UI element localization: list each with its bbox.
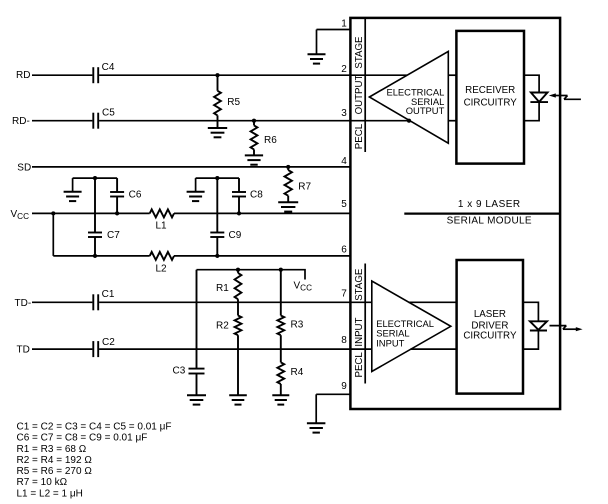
wire receiver to photodiode bottom — [524, 102, 539, 121]
electrical serial input text — [376, 318, 434, 349]
svg-text:C8: C8 — [250, 190, 263, 201]
wire C4 to pin 2 / output stage — [99, 74, 407, 76]
wire decoupling bar right — [196, 177, 239, 179]
svg-text:SERIAL MODULE: SERIAL MODULE — [447, 216, 532, 227]
svg-text:2: 2 — [341, 64, 347, 75]
svg-text:8: 8 — [341, 335, 347, 346]
module divider line — [404, 212, 560, 214]
svg-text:R4: R4 — [291, 367, 304, 378]
receiver circuitry text — [464, 85, 518, 108]
resistor R4 — [277, 349, 284, 395]
wire decoupling bar left — [73, 177, 118, 179]
ground at pin 9 — [307, 423, 326, 432]
laser driver circuitry text — [463, 309, 517, 342]
svg-text:C2: C2 — [102, 337, 115, 348]
svg-text:TD: TD — [17, 345, 30, 356]
resistor R3 — [277, 270, 284, 349]
svg-text:C1 = C2 = C3 = C4 = C5 = 0.01: C1 = C2 = C3 = C4 = C5 = 0.01 μF — [17, 421, 172, 432]
wire receiver to photodiode top — [524, 75, 539, 92]
svg-text:STAGE: STAGE — [354, 268, 365, 301]
junction dot C8 bottom on VCC — [237, 211, 241, 215]
svg-text:6: 6 — [341, 245, 347, 256]
wire RD- to C5 — [32, 120, 92, 122]
junction dot C7 bottom on L2 line — [93, 254, 97, 258]
svg-text:R1 = R3 = 68 Ω: R1 = R3 = 68 Ω — [17, 444, 87, 455]
resistor R6 — [251, 121, 258, 156]
svg-text:R1: R1 — [216, 283, 229, 294]
svg-text:C6: C6 — [129, 190, 142, 201]
ground at pin 1 — [308, 54, 326, 63]
electrical serial output text — [386, 87, 444, 116]
svg-text:C3: C3 — [173, 366, 186, 377]
ground on right decoupling bar — [187, 192, 205, 201]
svg-text:INPUT: INPUT — [376, 337, 404, 348]
svg-text:RECEIVER: RECEIVER — [465, 85, 515, 96]
svg-text:9: 9 — [341, 381, 347, 392]
svg-text:R6: R6 — [264, 135, 277, 146]
svg-text:R7 = 10 kΩ: R7 = 10 kΩ — [17, 477, 68, 488]
laser driver circuitry box — [457, 260, 523, 394]
wire triangle to laser driver (upper) — [409, 301, 457, 303]
resistor R2 — [235, 302, 242, 395]
junction dot R1 top on bias bar — [236, 268, 240, 272]
capacitor C4 — [93, 67, 98, 83]
inductor L1 — [150, 209, 174, 217]
junction dot RD- at triangle edge — [407, 119, 411, 123]
svg-text:L1 = L2 = 1 μH: L1 = L2 = 1 μH — [17, 488, 83, 499]
svg-text:3: 3 — [341, 108, 347, 119]
svg-text:L1: L1 — [156, 221, 168, 232]
svg-text:C4: C4 — [102, 62, 115, 73]
svg-text:R3: R3 — [291, 320, 304, 331]
svg-text:5: 5 — [341, 199, 347, 210]
svg-text:STAGE: STAGE — [354, 36, 365, 69]
wire VCC down to L2 line — [52, 213, 54, 256]
wire VCC bias bar — [197, 270, 306, 280]
laser diode D2 — [530, 321, 547, 330]
wire laser driver to laser diode bottom — [523, 331, 539, 350]
svg-text:CIRCUITRY: CIRCUITRY — [463, 331, 517, 342]
wire SD to pin 4 — [32, 166, 350, 168]
wire RD to C4 — [32, 74, 92, 76]
wire C1 to pin 7 / input stage — [99, 301, 372, 303]
optical input arrow — [549, 93, 581, 99]
ground below R2 — [229, 395, 247, 404]
svg-text:R2: R2 — [216, 321, 229, 332]
junction dot C9 top on bar — [215, 176, 219, 180]
svg-text:C7: C7 — [107, 230, 120, 241]
svg-text:OUTPUT: OUTPUT — [406, 105, 445, 116]
svg-text:C1: C1 — [102, 289, 115, 300]
wire L2 line left — [53, 255, 149, 257]
wire L2 to pin 6 — [174, 255, 350, 257]
capacitor C9 — [210, 178, 224, 256]
wire laser driver to laser diode top — [523, 302, 539, 321]
capacitor C5 — [93, 113, 98, 129]
wire TD- to C1 — [32, 301, 92, 303]
resistor R5 — [214, 75, 221, 128]
pin 9 wire — [316, 394, 350, 423]
module box U1 outline — [350, 18, 560, 409]
capacitor C7 — [88, 178, 102, 256]
resistor R1 — [235, 270, 242, 303]
svg-text:L2: L2 — [156, 263, 168, 274]
wire ground drop right bar — [195, 178, 197, 192]
component value list — [17, 421, 172, 499]
capacitor C1 — [93, 294, 98, 310]
svg-text:CIRCUITRY: CIRCUITRY — [464, 97, 518, 108]
receiver circuitry box — [456, 31, 524, 164]
junction dot C6 bottom on VCC — [115, 211, 119, 215]
wire triangle to receiver (upper) — [448, 74, 456, 76]
PECL OUTPUT STAGE label (vertical) — [354, 36, 365, 149]
junction dot C9 bottom on L2 line — [215, 254, 219, 258]
wire triangle to receiver (lower) — [448, 120, 456, 122]
svg-text:R2 = R4 = 192 Ω: R2 = R4 = 192 Ω — [17, 455, 93, 466]
ground below R7 — [278, 202, 298, 211]
svg-text:TD-: TD- — [15, 298, 32, 309]
junction dot R6 top on RD- line — [252, 119, 256, 123]
ground on left decoupling bar — [64, 192, 82, 201]
svg-text:C9: C9 — [229, 230, 242, 241]
svg-text:7: 7 — [341, 288, 347, 299]
svg-text:R7: R7 — [298, 182, 311, 193]
wire C5 to pin 3 / output stage — [99, 120, 410, 122]
junction dot R7 top on SD line — [286, 165, 290, 169]
capacitor C2 — [93, 341, 98, 357]
capacitor C3 — [189, 270, 205, 396]
junction dot C7 top on bar — [93, 176, 97, 180]
svg-text:PECL: PECL — [354, 352, 365, 378]
capacitor C8 — [232, 178, 246, 213]
inner stage separator line (lower) — [364, 264, 366, 384]
svg-text:PECL: PECL — [354, 123, 365, 149]
inductor L2 — [150, 252, 174, 260]
ground below R6 — [245, 155, 263, 164]
junction dot R5 top on RD line — [215, 73, 219, 77]
resistor R7 — [285, 167, 292, 202]
op-amp U3 electrical serial input triangle — [372, 281, 451, 372]
pin 1 wire — [317, 30, 351, 55]
ground below C3 — [187, 395, 206, 404]
capacitor C6 — [110, 178, 124, 213]
PECL INPUT STAGE label (vertical) — [354, 268, 365, 377]
wire C2 to pin 8 / input stage — [99, 348, 372, 350]
inner stage separator line (upper) — [364, 18, 366, 152]
optical output arrow — [550, 326, 583, 332]
ground below R5 — [208, 128, 227, 137]
ground below R4 — [272, 395, 289, 404]
svg-text:DRIVER: DRIVER — [471, 320, 508, 331]
svg-text:C6 = C7 = C8 = C9 = 0.01 μF: C6 = C7 = C8 = C9 = 0.01 μF — [17, 433, 148, 444]
photodiode D1 — [530, 93, 548, 103]
svg-text:OUTPUT: OUTPUT — [354, 74, 365, 114]
svg-text:RD: RD — [16, 70, 30, 81]
op-amp U2 electrical serial output triangle — [369, 51, 448, 143]
svg-text:RD-: RD- — [12, 116, 30, 127]
wire TD to C2 — [32, 348, 92, 350]
svg-text:4: 4 — [341, 156, 347, 167]
svg-text:SD: SD — [17, 162, 31, 173]
wire triangle to laser driver (lower) — [411, 348, 457, 350]
svg-text:R5 = R6 = 270 Ω: R5 = R6 = 270 Ω — [17, 466, 93, 477]
svg-text:1: 1 — [341, 19, 347, 30]
svg-text:LASER: LASER — [474, 309, 506, 320]
junction dot VCC left — [51, 211, 55, 215]
svg-text:1 x 9 LASER: 1 x 9 LASER — [458, 199, 521, 210]
wire L1 to pin 5 — [174, 212, 350, 214]
wire ground drop left bar — [72, 178, 74, 192]
junction dot R3 top on bias bar — [279, 268, 283, 272]
svg-text:R5: R5 — [227, 97, 240, 108]
wire VCC to L1 — [32, 212, 150, 214]
svg-text:C5: C5 — [102, 107, 115, 118]
svg-text:INPUT: INPUT — [354, 317, 365, 346]
